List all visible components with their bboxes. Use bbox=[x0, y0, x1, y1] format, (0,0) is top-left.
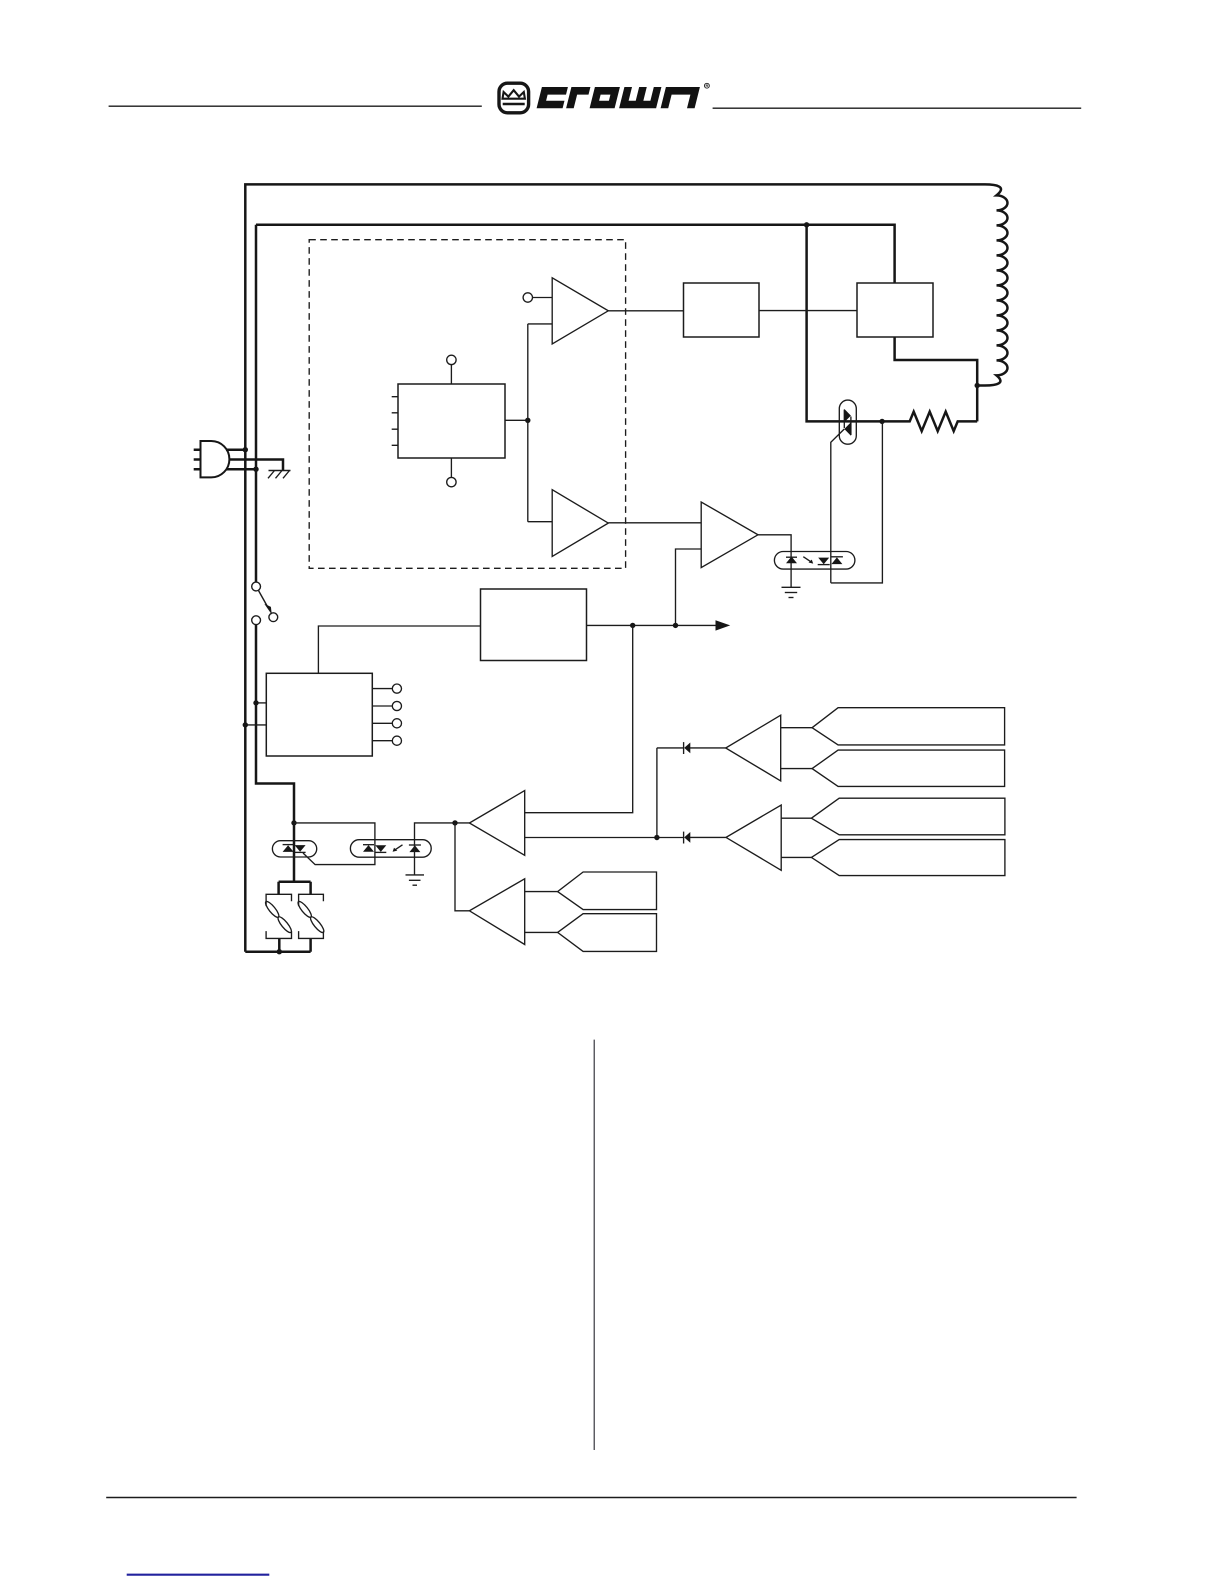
wire A7 output bbox=[455, 823, 469, 911]
block ramp generator bbox=[481, 589, 587, 661]
op-amp A5 bbox=[726, 715, 781, 781]
wire U1 output bbox=[505, 419, 528, 421]
node bus tap bbox=[804, 222, 809, 227]
breaker CB2 bbox=[296, 894, 326, 938]
wire box1 to box2 bbox=[759, 310, 857, 312]
block box2 bbox=[857, 283, 933, 337]
node triac-resistor junction bbox=[879, 419, 884, 424]
wire outer frame top+left bbox=[245, 184, 985, 951]
wire plug ground bbox=[229, 460, 284, 471]
chassis ground bbox=[268, 471, 291, 479]
flag label F6 bbox=[558, 914, 657, 952]
wire ramp output bbox=[587, 624, 717, 626]
wire controller pin a bbox=[256, 702, 266, 704]
wire box2 bottom lead bbox=[895, 337, 978, 386]
link underline bbox=[127, 1574, 270, 1576]
wire plug neutral bbox=[226, 468, 256, 471]
registered trademark bbox=[705, 83, 710, 88]
wire A1 to box1 bbox=[608, 310, 683, 312]
flag label F1 bbox=[812, 708, 1005, 745]
wire A3 lower input bbox=[676, 549, 702, 625]
dashed box module bbox=[309, 240, 625, 569]
footer rule bbox=[106, 1497, 1076, 1499]
node pin a bbox=[253, 700, 258, 705]
wire to amp A and amp B bbox=[528, 324, 552, 522]
wire mains vertical 2 upper bbox=[255, 225, 258, 582]
node A4 lower input bbox=[654, 835, 659, 840]
crown logo badge bbox=[499, 83, 529, 113]
pin stubs right bbox=[372, 684, 401, 745]
node ramp out 1 bbox=[630, 623, 635, 628]
opto coupler OC1 bbox=[272, 841, 316, 857]
flag label F3 bbox=[811, 798, 1005, 835]
wire mains vertical 2 lower to opto bbox=[256, 625, 294, 882]
wire OC2 out up bbox=[415, 823, 470, 875]
node OC1 top bbox=[291, 820, 296, 825]
node pin b bbox=[243, 722, 248, 727]
wire A6 inputs bbox=[781, 818, 811, 857]
wire A5 inputs bbox=[781, 728, 812, 769]
wire OC3 out loop bbox=[831, 421, 883, 583]
wire bus second line bbox=[256, 225, 895, 283]
wire coil bottom to resistor bbox=[976, 386, 979, 422]
op-amp A1 bbox=[552, 278, 608, 344]
ground OC3 bbox=[782, 587, 801, 597]
block box1 bbox=[684, 283, 760, 337]
breaker CB1 bbox=[264, 894, 294, 938]
op-amp A3 bbox=[701, 502, 758, 568]
divider vertical bbox=[593, 1040, 595, 1450]
wire to A4 upper input bbox=[525, 625, 633, 812]
wire A3 output to opto bbox=[758, 535, 791, 588]
transformer coil L1 bbox=[977, 184, 1007, 385]
arrow output bbox=[716, 620, 731, 630]
node amps out bbox=[452, 820, 457, 825]
node coil bottom bbox=[975, 383, 980, 388]
header rule left bbox=[109, 105, 482, 107]
wire ramp input bbox=[318, 626, 480, 673]
opto coupler OC3 bbox=[774, 552, 855, 570]
wire bus drop to triac bbox=[807, 225, 883, 422]
header rule right bbox=[713, 107, 1082, 109]
triac opto TR1 bbox=[831, 400, 857, 583]
diode D5 bbox=[684, 742, 726, 754]
wire A2 to A3 bbox=[608, 522, 701, 524]
wire frame bottom bbox=[245, 950, 310, 953]
flag label F4 bbox=[811, 840, 1005, 876]
node triac bottom bbox=[277, 949, 282, 954]
inverting input pin bbox=[523, 293, 552, 302]
block controller bbox=[266, 673, 372, 756]
node U1 output bbox=[525, 418, 530, 423]
switch S1 bbox=[252, 582, 278, 625]
op-amp A6 bbox=[726, 805, 781, 870]
svg-text:R: R bbox=[705, 83, 708, 88]
diode D6 bbox=[684, 832, 726, 844]
ground OC2 bbox=[406, 875, 425, 885]
opto coupler OC2 bbox=[350, 840, 431, 858]
op-amp A4 bbox=[469, 791, 524, 856]
wire triac branch tee bbox=[279, 882, 311, 952]
op-amp A2 bbox=[552, 490, 608, 557]
crown logo wordmark bbox=[537, 87, 700, 108]
wire A4 lower input bbox=[525, 837, 683, 839]
flag label F2 bbox=[812, 750, 1005, 786]
resistor R1 bbox=[882, 412, 977, 431]
IC U1 bbox=[392, 355, 505, 487]
wire OC1 loop to OC2 bbox=[294, 823, 375, 865]
wire controller pin b bbox=[245, 724, 266, 726]
AC plug P1 bbox=[194, 441, 230, 477]
node plug neutral bbox=[253, 467, 258, 472]
wire diode riser bbox=[657, 748, 683, 838]
node ramp out 2 bbox=[673, 623, 678, 628]
wire plug hot bbox=[226, 448, 245, 451]
wire A7 inputs bbox=[525, 892, 558, 933]
node plug hot bbox=[243, 447, 248, 452]
flag label F5 bbox=[558, 872, 657, 910]
op-amp A7 bbox=[469, 879, 524, 945]
